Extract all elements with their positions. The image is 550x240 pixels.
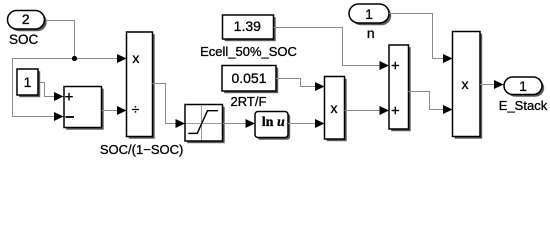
constant 0.051 value [99,71,399,85]
constant 2RT/F 0.051 [222,66,278,94]
product P2 x label [315,77,550,91]
inport port 2 SOC [8,11,47,32]
node junction dot [72,56,77,61]
inport port 1 n [349,4,391,25]
wire sum output to divide bottom input [102,106,127,115]
wire product to sum2 bottom input [345,106,390,115]
saturation block [185,105,225,144]
divide block D1 [127,32,155,139]
sum block S2 plus plus [389,45,411,131]
divide div port label [0,102,286,116]
label SOC [9,33,38,47]
product block P1 [325,77,347,142]
wire sum2 output to product2 bottom input [409,92,453,115]
label Ecell_50%_SOC [99,45,399,58]
constant C1 [17,69,40,97]
wire ln to product bottom input [288,119,325,128]
product P1 x label [184,101,484,115]
inport 1 value [219,7,519,21]
label 2RT/F [99,95,399,108]
constant 1.39 value [97,19,397,33]
outport 1 value [373,79,550,93]
wire saturation to ln [223,119,256,128]
constant C1 value [0,75,178,89]
sum block S1 plus minus [64,87,104,130]
constant Ecell 1.39 [223,15,276,41]
wire junction left-down to sum minus input [13,59,75,122]
wire junction to divide x input [75,54,127,63]
wire product2 to outport [480,80,504,89]
wire 1.39 to sum2 top input [274,28,390,71]
divide x port label [0,51,286,65]
inport 2 value [0,12,176,26]
label n [221,26,521,40]
math function block ln u [255,112,290,140]
wire constant 1 to sum plus input [38,83,64,102]
product block P2 [453,32,483,139]
wire n to product2 top input [389,14,453,64]
outport 1 E_Stack [504,77,544,97]
wire from inport SOC to junction [45,21,75,59]
label SOC/(1-SOC) [0,143,292,156]
wire divide output to saturation input [153,84,186,129]
label E_Stack [373,99,550,112]
wire 0.051 to product top input [276,79,325,92]
ln u text [262,116,285,130]
